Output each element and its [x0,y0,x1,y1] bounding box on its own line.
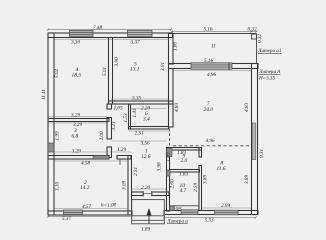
svg-text:11: 11 [211,44,216,50]
svg-text:2.59: 2.59 [193,183,199,192]
svg-text:3.09: 3.09 [122,181,128,190]
porch (Литера а) outline [132,200,165,224]
dashed boundary room 7 | room 8 [173,145,252,147]
svg-text:6.8: 6.8 [72,134,79,140]
svg-text:1.41: 1.41 [132,108,138,117]
svg-text:12.6: 12.6 [141,154,151,160]
svg-text:2.99: 2.99 [221,203,230,209]
svg-text:3.91: 3.91 [160,62,166,71]
svg-text:3.37: 3.37 [131,40,140,46]
wall: corridor recess bottom wall left part [132,192,144,196]
svg-text:4.58: 4.58 [81,161,90,167]
svg-text:3.4: 3.4 [142,117,150,123]
svg-text:3.30: 3.30 [71,40,80,46]
svg-text:4.57: 4.57 [82,204,91,210]
veranda corner post [252,34,257,39]
svg-text:0.32: 0.32 [257,34,263,43]
dimension line bottom 5.17 [47,215,133,217]
dimension line top 7.48 [47,28,172,30]
wall: right exterior wall [252,64,258,215]
svg-text:1.89: 1.89 [141,227,150,233]
wall: left exterior wall [48,33,54,215]
svg-text:Литера а1: Литера а1 [257,48,281,54]
svg-text:3.90: 3.90 [114,57,120,66]
wall: below room 5 (hall top) [109,101,174,104]
wall: room 5 / veranda wall [169,34,174,65]
svg-text:1.83: 1.83 [179,172,188,178]
svg-text:1.80: 1.80 [173,42,179,51]
svg-text:11.6: 11.6 [217,166,226,172]
svg-text:1.53: 1.53 [123,113,129,122]
wall: rooms 9/10 left wall [167,148,170,212]
dimension line top 5.16 / 0.32 [171,30,258,32]
wall: room 6 right / room 7 left wall [169,69,174,128]
door threshold line [143,193,152,195]
svg-text:5.53: 5.53 [205,218,214,224]
svg-text:3.98: 3.98 [157,162,163,171]
svg-text:5.02: 5.02 [54,69,60,78]
svg-text:2.31: 2.31 [133,167,139,176]
svg-text:3.35: 3.35 [132,96,141,102]
svg-text:11.11: 11.11 [41,89,47,100]
window: right wall (rooms 7/8) [252,123,256,160]
dimension line bottom 5.53 [163,216,257,218]
wall: room 6 bottom wall [129,127,169,130]
window: room 2 bottom [64,210,83,215]
svg-text:3.29: 3.29 [71,113,80,119]
svg-text:Литера а: Литера а [166,219,188,225]
svg-text:3.21: 3.21 [111,121,117,130]
svg-text:5.16: 5.16 [204,27,213,33]
svg-text:Н=3.35: Н=3.35 [258,76,275,82]
svg-text:3.56: 3.56 [141,141,150,147]
wall: room 4 bottom wall [48,119,109,122]
svg-text:5.16: 5.16 [204,58,213,64]
porch step line 2 [132,219,165,221]
door jambs: corridor exit door [142,191,144,197]
wall: room 6 left wall [129,104,131,129]
svg-text:3.89: 3.89 [244,175,250,184]
wall: partition rooms 4|5 [109,38,113,105]
dashed boundary room 1 | room 7 [169,129,171,148]
svg-text:1.09: 1.09 [166,152,172,161]
wall: rooms 9/10 right wall upper [199,148,202,158]
svg-text:24.0: 24.0 [204,107,214,113]
vent block room 10 left wall [167,170,171,176]
porch step line 1 [132,215,165,217]
wall: bottom exterior wall right [164,211,258,215]
wall: rooms 2/3 dividing wall left part [48,156,109,160]
svg-text:13.1: 13.1 [130,67,140,73]
vent shaft block in left wall (room 3) [48,143,54,152]
wall: partition room3|hall segment b [107,118,112,140]
wall: partition room3|hall segment a [107,104,112,109]
window: room 7 top (veranda wall) [191,63,232,71]
wall: top exterior wall of left block [48,33,173,38]
svg-text:2.60: 2.60 [169,179,175,188]
svg-text:4.7: 4.7 [180,188,187,194]
wall: veranda bottom / room 7 top wall [169,64,259,69]
svg-text:4.96: 4.96 [206,138,215,144]
svg-text:0.32: 0.32 [248,27,257,33]
closet line in room 10 [170,205,200,207]
svg-text:18.5: 18.5 [72,73,82,79]
wall: corridor recess bottom wall right part [152,192,169,196]
svg-text:1.05: 1.05 [114,106,123,112]
svg-text:2.20: 2.20 [141,185,150,191]
svg-text:2.00: 2.00 [99,131,105,140]
svg-text:4.83: 4.83 [244,103,250,112]
svg-text:4.83: 4.83 [174,103,180,112]
svg-text:Литера А: Литера А [258,69,281,75]
svg-text:3.89: 3.89 [203,175,209,184]
window: room 10 bottom [181,210,198,215]
svg-text:9.31: 9.31 [259,149,265,158]
svg-text:4.96: 4.96 [207,72,216,78]
window: room 8 bottom [215,210,239,215]
svg-text:2.51: 2.51 [135,131,144,137]
svg-text:1.29: 1.29 [117,147,126,153]
wall: rooms 2/3 dividing wall right part [117,156,131,160]
porch entry arrow [147,210,151,224]
door jamb below rooms2/3 wall [119,159,121,165]
svg-text:3.10: 3.10 [55,182,61,191]
wall: room 9 bottom wall [170,170,200,173]
window: room 4 top [70,30,94,36]
wall: partition room3|hall segment c [107,147,112,158]
veranda right wall [256,34,258,64]
svg-text:7.48: 7.48 [93,25,102,31]
svg-text:шк: шк [176,206,183,212]
svg-text:1.99: 1.99 [54,131,60,140]
svg-text:3.29: 3.29 [72,149,81,155]
svg-text:5.17: 5.17 [62,216,71,222]
wall: rooms 9/10 right wall lower [199,166,202,211]
vent block in room2/3 wall [93,156,109,160]
wall: room 9 top wall [167,148,202,151]
svg-text:h=1.00: h=1.00 [101,203,117,209]
svg-text:2.0: 2.0 [181,158,188,164]
wall: room 2 right wall [128,156,132,216]
svg-text:5.01: 5.01 [102,67,108,76]
window: room 5 top [128,30,153,36]
vent block room 9 top-left [167,148,173,157]
wall: bottom exterior wall left (room 2) [48,211,132,215]
interior dim lines [48,40,252,209]
veranda top wall (single line) [172,33,257,35]
closet hatch box [170,206,175,211]
svg-text:14.2: 14.2 [80,185,90,191]
